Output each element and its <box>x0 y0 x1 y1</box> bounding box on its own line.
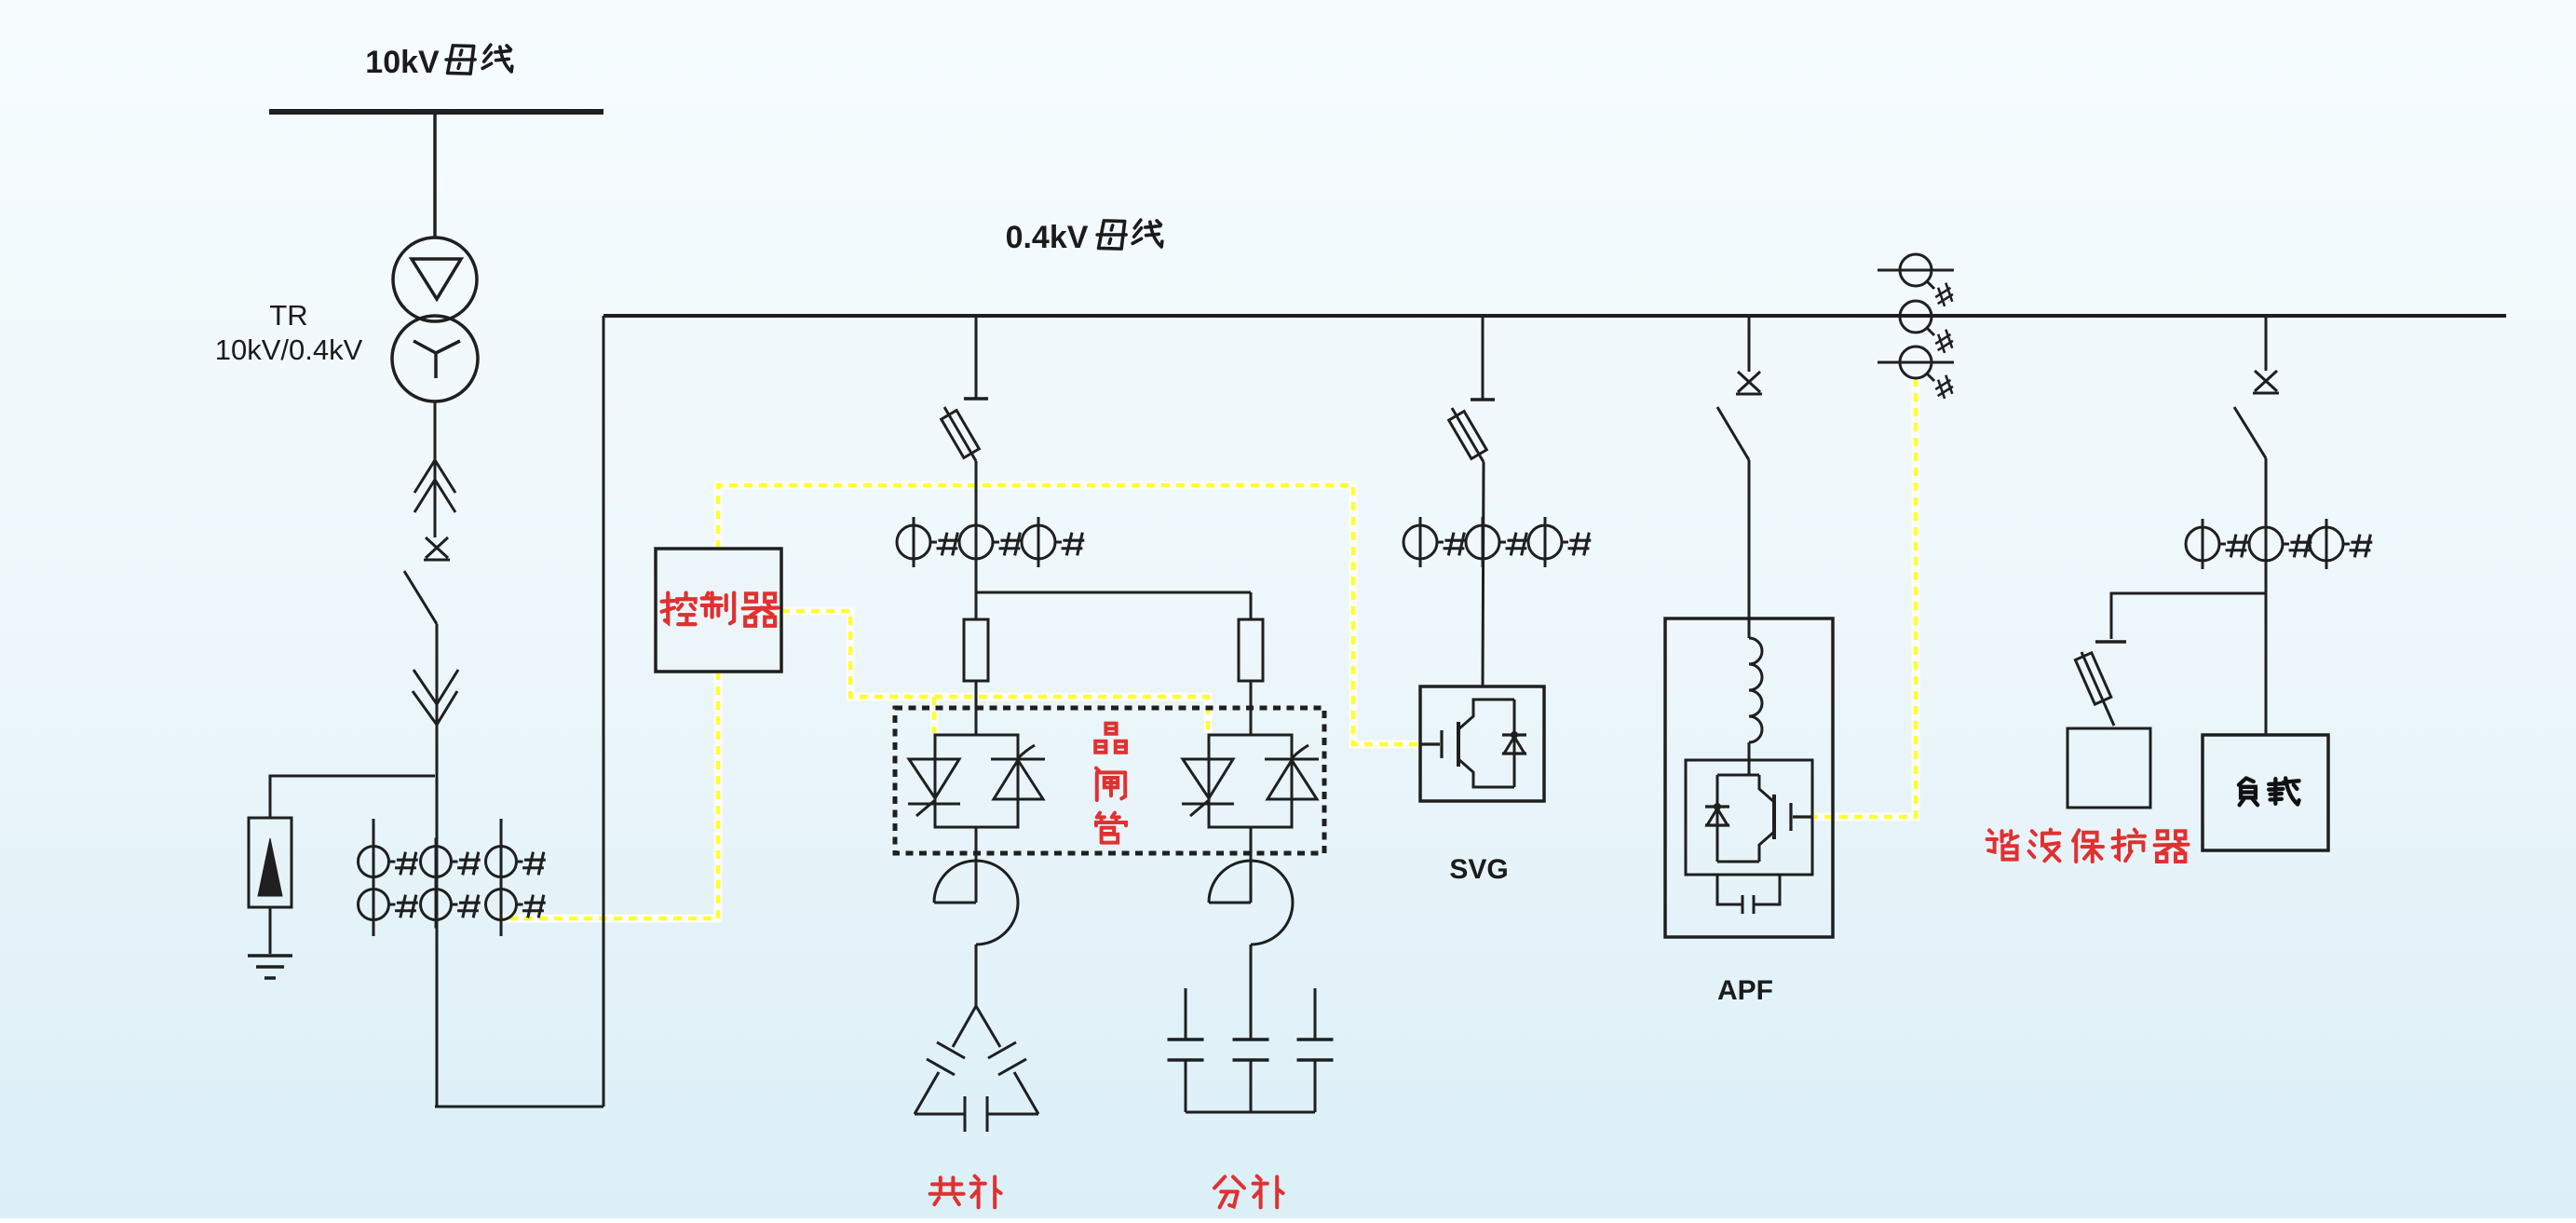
drawout chevrons up <box>414 460 455 493</box>
controller-to-SVG control wire halo <box>718 485 1418 744</box>
wire transformer to breaker <box>434 401 437 537</box>
wire bus to transformer <box>433 112 437 238</box>
current transformer CT at 1592,582 <box>1466 525 1499 559</box>
series reactor at 1048,969 <box>975 827 978 903</box>
controller-to-right-thyristor control wire halo <box>781 611 1208 733</box>
svg-text:SVG: SVG <box>1449 854 1508 885</box>
label 谐波保护器 <box>1987 830 2018 859</box>
current transformer CT at 1659,582 <box>1528 525 1562 559</box>
label 分补 <box>1214 1176 1244 1207</box>
controller-to-CT control wire halo <box>501 672 718 918</box>
label 共补 <box>930 1177 964 1204</box>
left leg fuse <box>964 619 988 681</box>
surge arrester <box>249 818 291 907</box>
SVG IGBT symbol <box>1420 730 1442 758</box>
controller-to-left-thyristor control wire <box>932 697 937 733</box>
current transformer CT at 981,582 <box>897 525 930 559</box>
controller-to-CT control wire <box>501 672 718 918</box>
APF bridge wiring <box>1717 775 1759 862</box>
10kV busbar <box>269 109 603 115</box>
current transformer CT at 468,925 <box>421 847 452 877</box>
branch to harmonic protector <box>2111 593 2266 639</box>
thyristor module at 1004,789 <box>935 735 1018 827</box>
controller box <box>656 549 781 672</box>
dotted thyristor enclosure <box>895 708 1324 853</box>
APF inner converter box <box>1686 760 1812 875</box>
branch1 fuse-switch blade <box>944 407 976 461</box>
branch1 fixed contact tick <box>964 397 988 400</box>
transformer TR secondary winding (wye) <box>392 316 478 401</box>
ground symbol <box>248 956 292 978</box>
series reactor at 1343,969 <box>1250 827 1253 903</box>
current transformer CT at 538,971 <box>486 890 517 920</box>
branch1 wire <box>975 461 978 592</box>
APF outer box <box>1665 618 1833 937</box>
SVG freewheel diode <box>1502 733 1526 736</box>
load branch wire <box>2265 316 2268 371</box>
label 晶闸管 <box>1095 724 1126 753</box>
svg-text:TR: TR <box>269 299 307 332</box>
controller-to-left-thyristor control wire halo <box>930 697 939 733</box>
svg-text:0.4kV: 0.4kV <box>1006 220 1089 255</box>
APF breaker X <box>1736 372 1762 394</box>
bus-CT-to-APF control wire <box>1814 378 1916 817</box>
thyristor module at 1298,789 <box>1209 735 1292 827</box>
current transformer CT at 1525,582 <box>1403 525 1437 559</box>
isolating switch blade <box>404 571 437 624</box>
current transformer CT at 2498,584 <box>2310 527 2343 561</box>
current transformer CT at 1048,582 <box>959 525 993 559</box>
load switch blade <box>2234 407 2266 458</box>
left riser corner <box>435 316 603 1107</box>
APF branch wire <box>1748 316 1751 372</box>
APF switch blade <box>1717 407 1749 460</box>
metering CT group 2x3 <box>373 819 375 936</box>
svg-text:10kV: 10kV <box>365 45 440 80</box>
controller-to-right-thyristor control wire <box>781 611 1208 733</box>
split to two thyristor legs <box>976 591 1251 594</box>
current transformer CT at 468,971 <box>421 890 452 920</box>
right leg fuse <box>1239 619 1263 681</box>
label 负载 <box>2239 778 2257 805</box>
load box <box>2203 735 2328 850</box>
drawout chevrons down <box>414 670 458 704</box>
bus-CT-to-APF control wire halo <box>1814 378 1916 817</box>
branch to surge arrester <box>270 776 435 818</box>
current transformer CT at 538,925 <box>486 847 517 877</box>
current transformer CT at 401,971 <box>359 890 389 920</box>
APF dc capacitor <box>1717 875 1780 914</box>
transformer TR primary winding (delta) <box>393 238 477 321</box>
breaker X symbol <box>424 537 450 560</box>
APF inductor <box>1749 638 1762 742</box>
svg-text:APF: APF <box>1717 975 1773 1006</box>
SVG branch wire <box>1482 316 1485 400</box>
harmonic protector fuse-switch <box>2081 652 2114 726</box>
shunt capacitor bank 分补 <box>1185 988 1187 1040</box>
current transformer CT at 2365,584 <box>2186 527 2219 561</box>
current transformer CT at 2433,584 <box>2249 527 2283 561</box>
delta capacitor bank 共补 <box>915 1006 976 1114</box>
svg-text:10kV/0.4kV: 10kV/0.4kV <box>215 333 363 366</box>
bus CT stack <box>1878 269 1954 272</box>
load breaker X <box>2253 371 2279 393</box>
current transformer CT at 1115,582 <box>1022 525 1055 559</box>
APF IGBT <box>1772 795 1776 839</box>
harmonic protector box <box>2068 728 2150 808</box>
main feeder wire down <box>436 624 439 1107</box>
controller-to-SVG control wire <box>718 485 1418 744</box>
label 控制器 <box>662 593 696 625</box>
SVG converter box <box>1420 686 1544 801</box>
SVG fuse-switch <box>1452 408 1484 462</box>
branch1 wire from bus <box>975 316 978 399</box>
APF diode <box>1705 805 1729 808</box>
current transformer CT at 401,925 <box>359 847 389 877</box>
0.4kV busbar <box>603 314 2506 318</box>
